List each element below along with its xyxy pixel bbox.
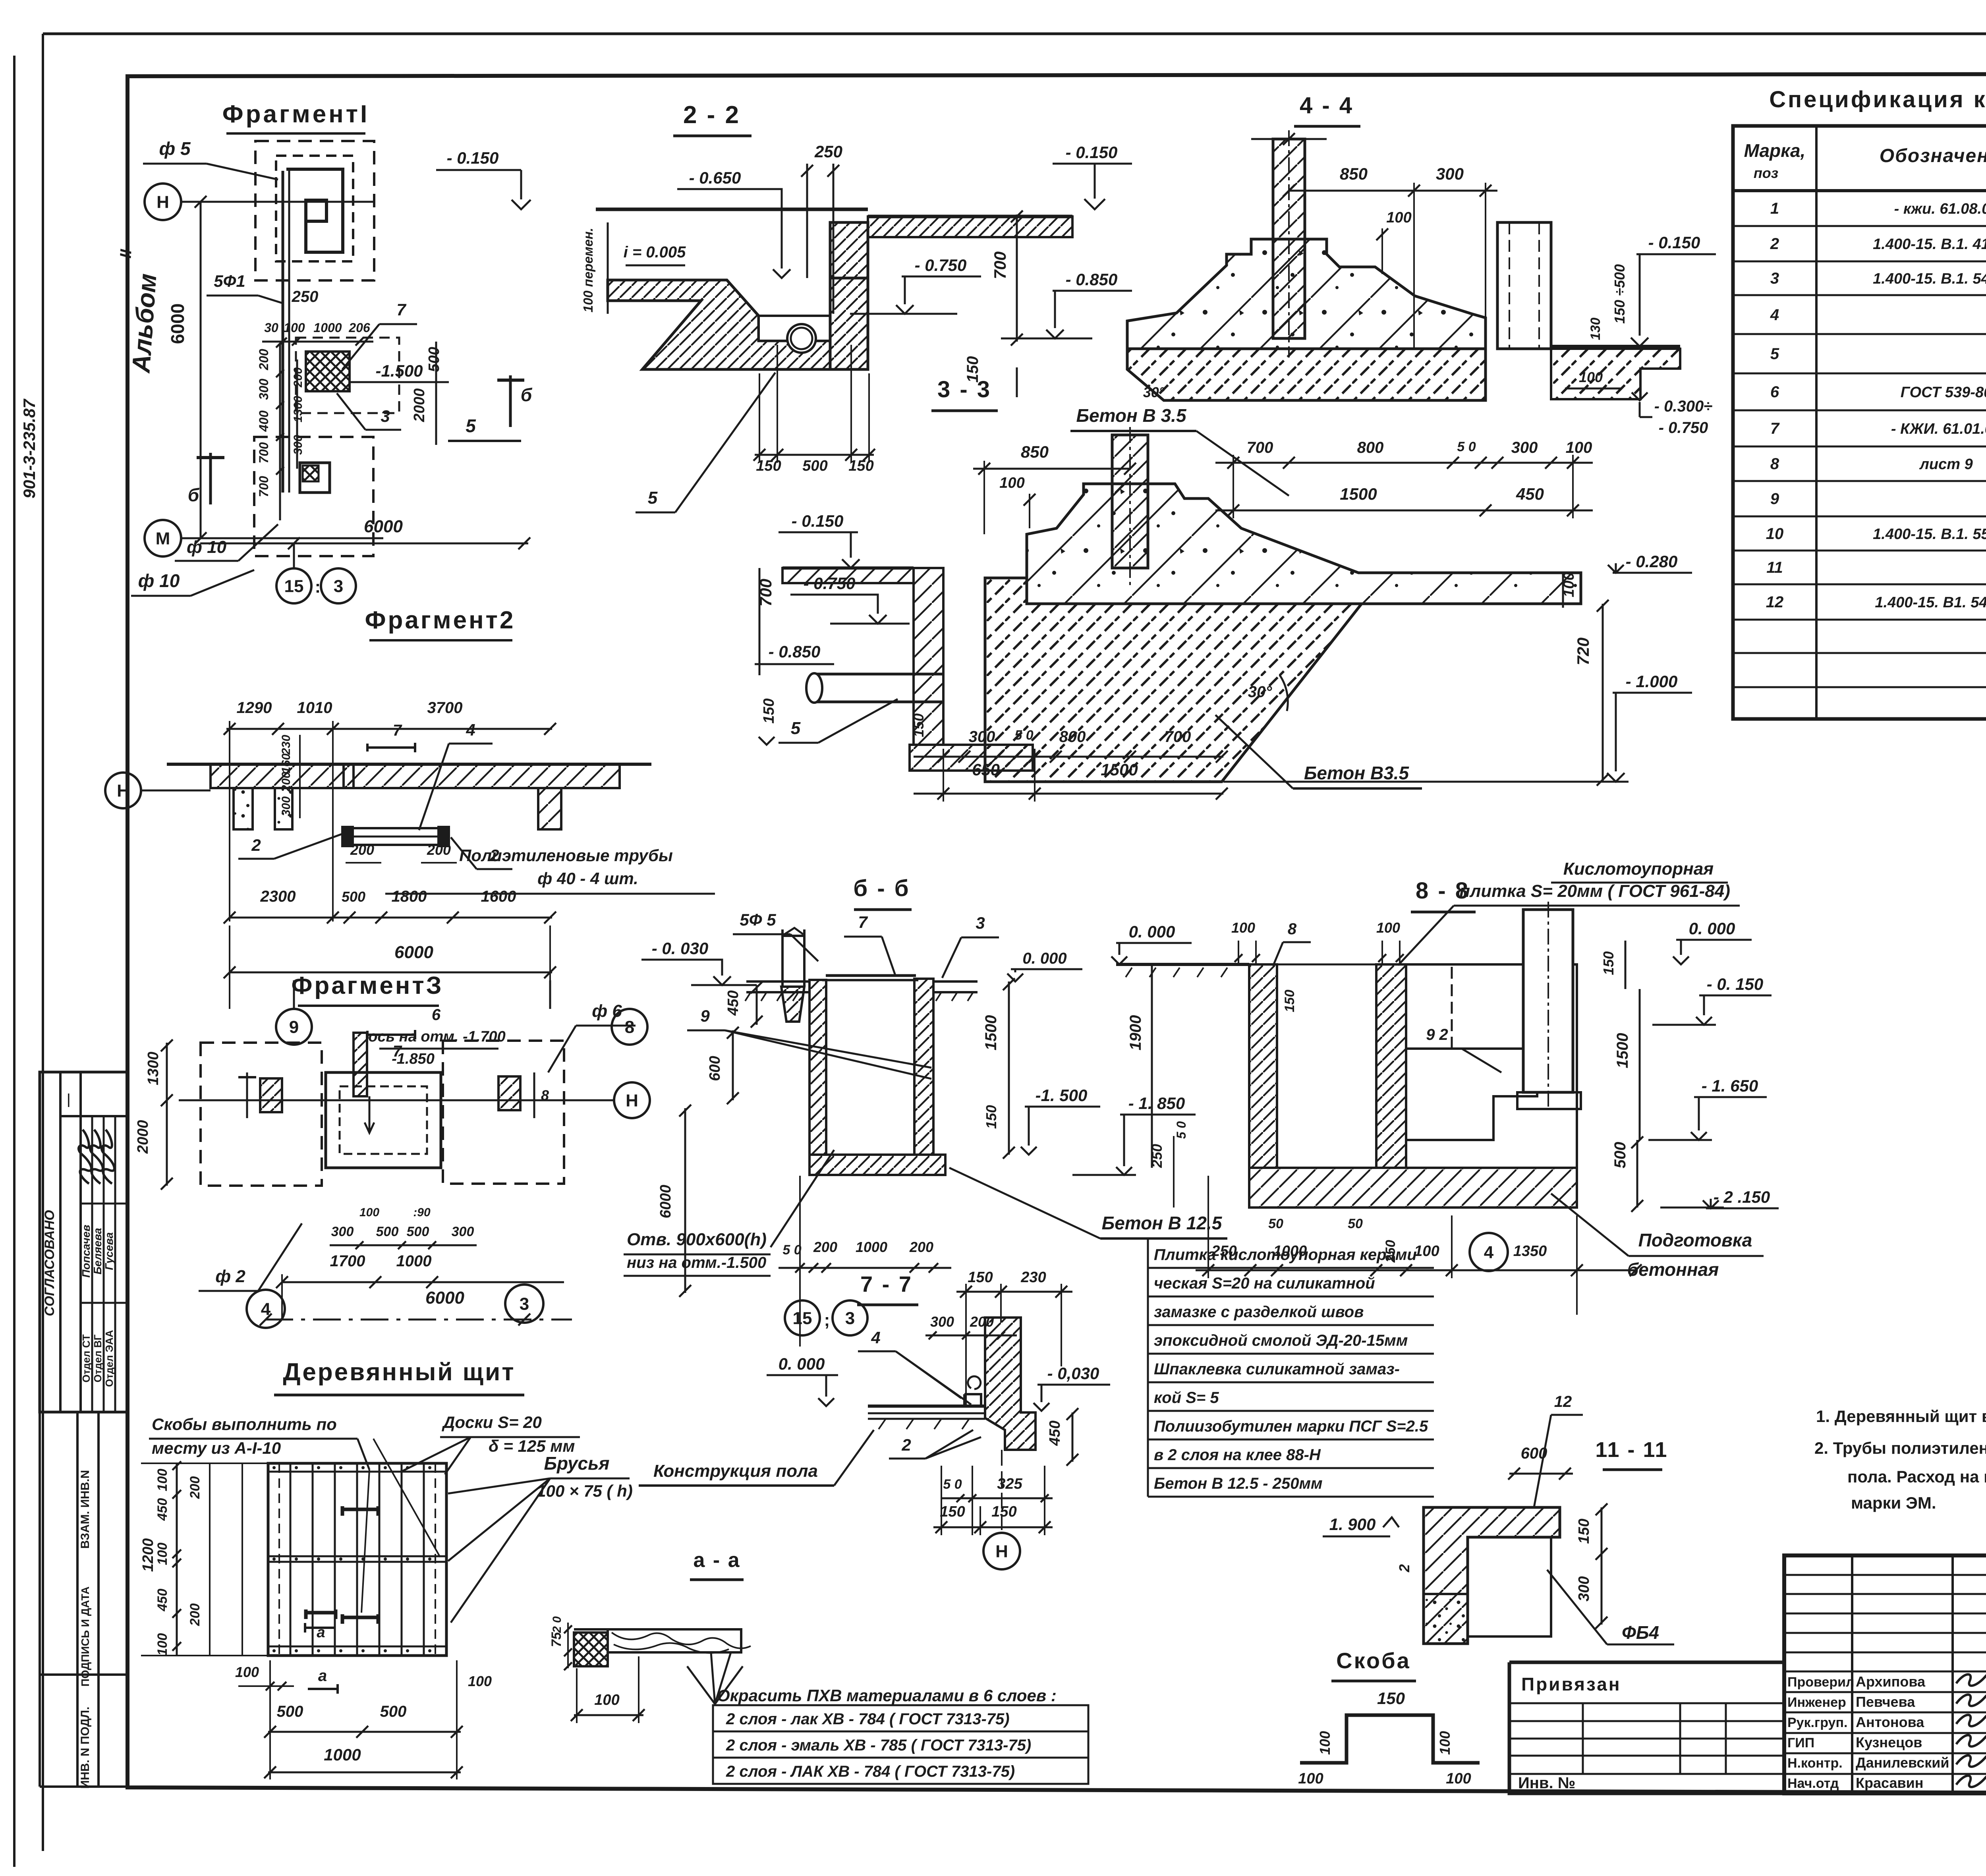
svg-text:300: 300: [257, 379, 271, 400]
section 4-4 right slab: [1551, 349, 1680, 399]
Fragment 2 right slab: [344, 764, 620, 788]
section 8-8 axis circle 4: [1470, 1233, 1508, 1271]
Fragment 1 axis circle N: [145, 184, 181, 220]
section 2-2 trench body: [608, 278, 868, 369]
section 3-3 pit bottom slab: [910, 745, 1033, 771]
svg-text:Марка,: Марка,: [1744, 140, 1806, 161]
svg-text:6000: 6000: [657, 1185, 674, 1219]
svg-text:100: 100: [235, 1664, 259, 1680]
section 7-7 floor: [868, 1405, 985, 1408]
svg-text:II: II: [117, 249, 135, 259]
svg-text:5 0: 5 0: [1457, 439, 1476, 454]
svg-text:5 0: 5 0: [1014, 728, 1033, 743]
Fragment 1 section mark B right: [509, 375, 512, 427]
svg-text:100: 100: [1437, 1731, 1453, 1755]
svg-text:800: 800: [1357, 439, 1384, 456]
section 4-4 dim 850/300: [1289, 190, 1497, 192]
scan spine shadow line: [13, 56, 15, 1867]
svg-text:300: 300: [1436, 164, 1464, 183]
svg-text:- 0. 030: - 0. 030: [652, 939, 708, 958]
section 4-4 bottom dims 700 800 50 300 100: [1215, 462, 1593, 464]
svg-text:160: 160: [280, 753, 293, 773]
svg-text:Подготовка: Подготовка: [1638, 1230, 1752, 1250]
svg-text:Данилевский: Данилевский: [1856, 1754, 1949, 1771]
Fragment 3 right dashed box: [443, 1041, 564, 1184]
svg-text:лист 9: лист 9: [1919, 456, 1972, 473]
svg-text:5: 5: [791, 719, 801, 738]
svg-text:Плитка кислотоупорная керами: Плитка кислотоупорная керами: [1154, 1246, 1417, 1264]
svg-text:Отдел ЭАА: Отдел ЭАА: [103, 1330, 115, 1387]
svg-text:1350: 1350: [1513, 1243, 1547, 1260]
svg-text::90: :90: [413, 1206, 431, 1219]
svg-text:8: 8: [1288, 920, 1297, 938]
svg-text:- 1. 650: - 1. 650: [1702, 1076, 1758, 1095]
svg-text:11 - 11: 11 - 11: [1595, 1438, 1668, 1462]
svg-text:- 0.150: - 0.150: [1066, 143, 1118, 162]
Fragment 2 right pad: [538, 788, 561, 829]
svg-text:1600: 1600: [481, 888, 516, 905]
Fragment 2 pipes bundle: [344, 828, 449, 845]
svg-text:2. Трубы полиэтиленовые з: 2. Трубы полиэтиленовые заложить до устр…: [1814, 1439, 1986, 1457]
svg-text:5: 5: [466, 415, 476, 436]
svg-text:ГОСТ 539-80: ГОСТ 539-80: [1901, 384, 1986, 401]
svg-text:СОГЛАСОВАНО: СОГЛАСОВАНО: [42, 1210, 57, 1316]
svg-text:300: 300: [1511, 439, 1538, 456]
section A-A plank: [608, 1629, 741, 1652]
svg-text:эпоксидной смолой ЭД-20-15мм: эпоксидной смолой ЭД-20-15мм: [1154, 1332, 1408, 1349]
Fragment 1 vertical axis dim 6000: [200, 202, 202, 538]
section 8-8 left wall: [1249, 964, 1277, 1168]
svg-text:5Ф1: 5Ф1: [214, 272, 245, 290]
svg-text:7: 7: [396, 300, 406, 319]
svg-text:500: 500: [407, 1224, 429, 1239]
Fragment 3 riser: [354, 1033, 367, 1096]
Fragment 1 outer dashed box: [255, 141, 374, 280]
svg-text:Бетон В 12.5 - 250мм: Бетон В 12.5 - 250мм: [1154, 1475, 1323, 1492]
section 8-8 right wall: [1376, 964, 1406, 1168]
section A-A leaders to paint note: [715, 1666, 743, 1704]
svg-text:800: 800: [1059, 728, 1086, 746]
svg-text:5: 5: [648, 488, 658, 508]
svg-text:1: 1: [1770, 200, 1779, 217]
svg-text:150: 150: [848, 458, 873, 474]
svg-text:1000: 1000: [856, 1239, 887, 1255]
svg-text:8: 8: [541, 1087, 549, 1103]
svg-text:Кузнецов: Кузнецов: [1856, 1734, 1922, 1750]
svg-text:- 0.150: - 0.150: [792, 512, 844, 530]
svg-text:100: 100: [155, 1469, 170, 1492]
wooden shield mid rail: [268, 1555, 446, 1557]
svg-text:Привязан: Привязан: [1521, 1674, 1621, 1694]
svg-text:500: 500: [376, 1224, 399, 1239]
svg-text:1. 900: 1. 900: [1329, 1515, 1376, 1534]
svg-text:130: 130: [1588, 318, 1603, 340]
svg-text:100: 100: [1566, 439, 1592, 456]
svg-text:30°: 30°: [1248, 683, 1272, 701]
svg-text:2300: 2300: [260, 888, 296, 905]
section 2-2 trench channel: [759, 316, 830, 341]
svg-text:1800: 1800: [392, 888, 427, 905]
svg-text:150: 150: [968, 1269, 993, 1286]
svg-text:150: 150: [1282, 990, 1297, 1012]
svg-text:500: 500: [342, 889, 365, 905]
section 2-2 floor line left: [596, 208, 868, 211]
svg-text:4: 4: [261, 1299, 271, 1319]
svg-text:1500: 1500: [1614, 1033, 1631, 1068]
svg-text:300: 300: [452, 1224, 474, 1239]
svg-text:ф 5: ф 5: [159, 138, 191, 159]
svg-text:Отдел СТ: Отдел СТ: [80, 1334, 92, 1382]
svg-text:0. 000: 0. 000: [1022, 950, 1066, 967]
svg-text:200: 200: [257, 349, 271, 371]
svg-text:6000: 6000: [364, 517, 403, 536]
svg-text:200: 200: [427, 842, 451, 858]
svg-text:100: 100: [359, 1206, 379, 1219]
svg-text:300: 300: [930, 1314, 954, 1330]
Fragment 1 wall column: [286, 169, 343, 252]
svg-text:поз: поз: [1754, 165, 1778, 181]
svg-text:1900: 1900: [1127, 1015, 1144, 1051]
section 4-4 right pit walls: [1497, 222, 1551, 349]
svg-text:850: 850: [1340, 164, 1368, 183]
svg-text:206: 206: [348, 321, 370, 335]
svg-text:200: 200: [292, 367, 305, 388]
svg-text:150: 150: [991, 1503, 1016, 1520]
svg-text:500: 500: [380, 1703, 407, 1720]
svg-text:100: 100: [155, 1543, 170, 1565]
svg-text:150: 150: [910, 713, 927, 737]
svg-text:Гусева: Гусева: [103, 1232, 115, 1270]
svg-text:100: 100: [468, 1673, 492, 1689]
svg-text:450: 450: [1047, 1420, 1063, 1446]
svg-text:Беляева: Беляева: [91, 1228, 104, 1274]
svg-text:3700: 3700: [427, 699, 463, 717]
svg-text:ФрагментЗ: ФрагментЗ: [291, 972, 443, 999]
section 11-11 detail: [1424, 1507, 1560, 1644]
svg-text:-1. 500: -1. 500: [1036, 1086, 1088, 1105]
svg-text:1300: 1300: [292, 396, 305, 422]
svg-text:ческая S=20 на силикатной: ческая S=20 на силикатной: [1154, 1275, 1375, 1292]
svg-text:2: 2: [1396, 1564, 1412, 1573]
svg-text:500: 500: [802, 458, 827, 474]
svg-text:3: 3: [334, 576, 343, 596]
Fragment 3 axis circles 4 and 3: [247, 1290, 285, 1328]
svg-text:- 1.000: - 1.000: [1626, 672, 1678, 691]
svg-text:6000: 6000: [394, 943, 433, 962]
svg-text:Окрасить ПХВ материалами в: Окрасить ПХВ материалами в 6 слоев :: [717, 1686, 1057, 1705]
section B-B cover plate: [826, 974, 916, 977]
svg-text:720: 720: [1574, 638, 1592, 665]
svg-text:-1.500: -1.500: [375, 361, 423, 380]
svg-text:б - б: б - б: [853, 875, 910, 901]
svg-text:0. 000: 0. 000: [779, 1354, 825, 1373]
svg-text:Нач.отд: Нач.отд: [1787, 1776, 1839, 1791]
svg-text:3: 3: [845, 1308, 855, 1328]
svg-text:—: —: [60, 1094, 75, 1107]
Fragment 2 section mark 7 top: [366, 744, 369, 752]
svg-text:-1.850: -1.850: [392, 1051, 435, 1067]
svg-text:4: 4: [466, 721, 475, 739]
svg-text:100: 100: [1446, 1770, 1471, 1787]
svg-text:700: 700: [257, 476, 271, 497]
Fragment 3 left hatched pier: [260, 1078, 282, 1112]
svg-text:Певчева: Певчева: [1856, 1694, 1915, 1710]
svg-text:ФБ4: ФБ4: [1622, 1622, 1659, 1643]
svg-text:150: 150: [761, 698, 777, 723]
svg-text:1010: 1010: [297, 699, 332, 717]
Fragment 3 central pit: [326, 1072, 441, 1168]
Fragment 1 inner dashed box: [276, 156, 353, 261]
spec table grid: [1733, 126, 1986, 719]
svg-text:700: 700: [991, 251, 1009, 279]
svg-text:6: 6: [432, 1006, 441, 1024]
svg-text:- КЖИ. 61.01.00: - КЖИ. 61.01.00: [1891, 421, 1986, 437]
svg-text:кой S= 5: кой S= 5: [1154, 1389, 1219, 1407]
svg-text:9: 9: [700, 1007, 710, 1025]
svg-text:30°: 30°: [1143, 384, 1165, 400]
svg-text:500: 500: [277, 1703, 303, 1720]
svg-text:4: 4: [1484, 1242, 1494, 1262]
skoba profile: [1300, 1715, 1480, 1763]
svg-text:2: 2: [1770, 235, 1779, 253]
svg-text:500: 500: [1611, 1142, 1629, 1169]
svg-text:4: 4: [871, 1328, 880, 1347]
svg-text:- 2 .150: - 2 .150: [1714, 1188, 1770, 1206]
section B-B pit bottom slab: [809, 1155, 945, 1175]
svg-text:- кжи. 61.08.00: - кжи. 61.08.00: [1894, 201, 1986, 217]
svg-text:11: 11: [1766, 559, 1783, 576]
svg-text:3: 3: [520, 1294, 529, 1314]
svg-text:Скоба: Скоба: [1336, 1648, 1411, 1673]
section 8-8 ground line: [1116, 963, 1249, 966]
svg-text:450: 450: [155, 1589, 170, 1612]
svg-text:Антонова: Антонова: [1856, 1714, 1924, 1730]
svg-text:Н: Н: [626, 1091, 638, 1110]
section 2-2 pipe: [787, 324, 816, 353]
svg-text:150: 150: [1377, 1689, 1405, 1708]
svg-text:6000: 6000: [167, 303, 188, 344]
svg-text:600: 600: [707, 1056, 723, 1081]
svg-text:700: 700: [1165, 728, 1191, 746]
svg-text:Бетон В3.5: Бетон В3.5: [1304, 763, 1410, 783]
svg-text:Конструкция пола: Конструкция пола: [653, 1461, 818, 1481]
svg-text:100 × 75 ( h): 100 × 75 ( h): [537, 1482, 633, 1500]
svg-text:1500: 1500: [982, 1015, 1000, 1051]
svg-text:Н: Н: [995, 1542, 1008, 1561]
svg-text:1000: 1000: [396, 1252, 432, 1270]
svg-text:ось на отм. -1.700: ось на отм. -1.700: [368, 1028, 506, 1045]
svg-text:1.400-15. В1. 540-09: 1.400-15. В1. 540-09: [1875, 594, 1986, 611]
svg-text:150: 150: [1576, 1519, 1592, 1544]
svg-text:200: 200: [813, 1239, 837, 1255]
sheet outer border: [43, 33, 1986, 35]
svg-text:9 2: 9 2: [1426, 1026, 1448, 1043]
svg-text:50: 50: [1268, 1216, 1283, 1231]
svg-text:ВЗАМ. ИНВ.N: ВЗАМ. ИНВ.N: [79, 1470, 92, 1549]
section 8-8 bottom slab: [1249, 1168, 1577, 1208]
svg-text:- 0.650: - 0.650: [689, 168, 741, 187]
svg-text:200: 200: [280, 772, 293, 792]
svg-text:Скобы выполнить по: Скобы выполнить по: [152, 1415, 337, 1434]
Fragment 2 section mark 7 bottom: [366, 1031, 369, 1039]
svg-text:плитка S= 20мм ( ГОСТ 961-84): плитка S= 20мм ( ГОСТ 961-84): [1459, 881, 1730, 901]
svg-text:5 0: 5 0: [943, 1477, 962, 1492]
svg-text:1000: 1000: [313, 321, 342, 335]
svg-text:100: 100: [1298, 1770, 1323, 1787]
svg-text:Н.контр.: Н.контр.: [1787, 1756, 1843, 1771]
Fragment 1 section mark B top: [209, 453, 212, 504]
svg-text:100: 100: [1386, 209, 1411, 226]
svg-text:Деревянный щит: Деревянный щит: [283, 1358, 515, 1386]
svg-text:150: 150: [940, 1503, 965, 1520]
svg-text:250: 250: [292, 288, 319, 305]
svg-text:200: 200: [187, 1604, 203, 1627]
svg-text:700: 700: [1247, 439, 1273, 456]
svg-text:100: 100: [999, 475, 1024, 491]
section 4-4 foundation mound: [1127, 239, 1486, 349]
section B-B pit walls: [809, 980, 826, 1155]
svg-text:замазке с разделкой швов: замазке с разделкой швов: [1154, 1303, 1364, 1321]
svg-text:2 слоя - лак ХВ - 784 ( ГО: 2 слоя - лак ХВ - 784 ( ГОСТ 7313-75): [726, 1710, 1010, 1728]
svg-text:9: 9: [1770, 490, 1779, 508]
Fragment 1 lower dashed box: [254, 437, 373, 556]
svg-text:Рук.груп.: Рук.груп.: [1787, 1715, 1847, 1730]
svg-text:7 - 7: 7 - 7: [860, 1271, 913, 1296]
svg-text:Брусья: Брусья: [544, 1453, 609, 1474]
section 4-4 column: [1273, 139, 1305, 338]
Fragment 2 axis circles 9 and 8: [276, 1009, 312, 1045]
section 2-2 right wall: [830, 222, 868, 369]
svg-text:100: 100: [155, 1633, 170, 1656]
section B-B right approach slab: [933, 981, 978, 992]
svg-text:ИНВ. N ПОДЛ.: ИНВ. N ПОДЛ.: [79, 1707, 92, 1789]
title block: [1784, 1555, 1986, 1793]
svg-text:5 0: 5 0: [1174, 1121, 1188, 1139]
svg-text:300: 300: [280, 796, 293, 816]
svg-text:30: 30: [264, 321, 278, 335]
section B-B pier above: [782, 929, 804, 987]
svg-text:901-3-235.87: 901-3-235.87: [20, 398, 39, 498]
svg-text:1.400-15. В.1. 540-09: 1.400-15. В.1. 540-09: [1873, 270, 1986, 287]
section 3-3 dim 850: [973, 468, 1130, 470]
svg-text:3 - 3: 3 - 3: [937, 377, 991, 402]
svg-text:12: 12: [1766, 593, 1784, 611]
svg-text:100: 100: [1414, 1243, 1439, 1260]
svg-text:в 2 слоя на клее 88-Н: в 2 слоя на клее 88-Н: [1154, 1446, 1321, 1464]
svg-text:а - а: а - а: [693, 1549, 740, 1572]
svg-text:- 0.750: - 0.750: [915, 256, 967, 274]
svg-text:б: б: [188, 485, 200, 505]
section B-B pier wedge: [781, 987, 804, 1022]
svg-text:1000: 1000: [324, 1745, 361, 1764]
svg-text:2 слоя - ЛАК ХВ - 784 (: 2 слоя - ЛАК ХВ - 784 ( ГОСТ 7313-75): [726, 1763, 1015, 1780]
svg-text:8: 8: [625, 1017, 634, 1037]
svg-text:δ = 125 мм: δ = 125 мм: [489, 1437, 575, 1455]
title block left wing: [1509, 1662, 1784, 1793]
svg-text:б: б: [521, 384, 533, 405]
svg-text:150: 150: [983, 1105, 999, 1129]
svg-text:Архипова: Архипова: [1856, 1673, 1926, 1690]
svg-text:5Ф 5: 5Ф 5: [740, 910, 776, 929]
svg-text:100: 100: [284, 321, 305, 335]
svg-text:Попсачев: Попсачев: [80, 1225, 92, 1277]
Fragment 2 axis circles 15;3: [276, 568, 311, 603]
svg-text:Полиэтиленовые трубы: Полиэтиленовые трубы: [459, 846, 673, 865]
svg-text:Н: Н: [156, 192, 169, 212]
svg-text:100: 100: [1579, 369, 1603, 385]
svg-text:230: 230: [1020, 1269, 1046, 1286]
svg-text:0. 000: 0. 000: [1129, 922, 1175, 941]
svg-text:Бетон В 3.5: Бетон В 3.5: [1076, 405, 1186, 426]
section B-B pit inner liner: [826, 980, 914, 1155]
Fragment 3 left dashed box: [201, 1043, 322, 1186]
svg-text:Спецификация к схеме располо: Спецификация к схеме расположения приямк…: [1769, 87, 1986, 112]
svg-text:4: 4: [1770, 306, 1779, 324]
Fragment 3 right hatched pier: [498, 1076, 520, 1110]
section 3-3 upper mound: [1027, 484, 1581, 604]
svg-text:- 0.150: - 0.150: [447, 149, 499, 167]
svg-text:- 0.850: - 0.850: [1066, 270, 1118, 289]
svg-text:700: 700: [257, 442, 271, 464]
svg-text:1.400-15. В.1. 550-06: 1.400-15. В.1. 550-06: [1873, 526, 1986, 543]
svg-text:1700: 1700: [330, 1252, 365, 1270]
svg-text:ф 6: ф 6: [592, 1001, 622, 1021]
svg-text:1.400-15. В.1. 410-05: 1.400-15. В.1. 410-05: [1873, 236, 1986, 253]
section 4-4 base slab: [1127, 349, 1486, 400]
svg-text:- 0.750: - 0.750: [1659, 419, 1708, 437]
svg-text:Отв. 900х600(h): Отв. 900х600(h): [627, 1230, 767, 1249]
svg-text:- 0. 150: - 0. 150: [1707, 975, 1763, 993]
svg-text:100: 100: [1317, 1731, 1333, 1755]
svg-text:марки ЭМ.: марки ЭМ.: [1851, 1493, 1936, 1512]
section 4-4 bottom dims 1500 450: [1215, 510, 1593, 512]
svg-text:пола. Расход на полиэтилен: пола. Расход на полиэтиленовые трубы см.…: [1847, 1467, 1986, 1486]
svg-text:250: 250: [814, 142, 842, 161]
svg-text:Кислотоупорная: Кислотоупорная: [1563, 859, 1714, 879]
svg-text:1. Деревянный щит выполняет: 1. Деревянный щит выполняется из хвойных…: [1816, 1407, 1986, 1426]
svg-text:Фрагмент2: Фрагмент2: [365, 607, 516, 634]
Fragment 2 left slab: [211, 764, 354, 788]
svg-text:1500: 1500: [1101, 760, 1138, 779]
wooden shield staples: [342, 1506, 378, 1516]
svg-text:400: 400: [257, 410, 271, 432]
svg-text:бетонная: бетонная: [1627, 1259, 1719, 1280]
Fragment 3 axis line N: [179, 1099, 614, 1101]
svg-text:Полиизобутилен марки ПСГ S=: Полиизобутилен марки ПСГ S=2.5: [1154, 1418, 1428, 1435]
svg-text:Инженер: Инженер: [1787, 1695, 1846, 1710]
svg-text:150: 150: [1600, 951, 1617, 975]
svg-text:300: 300: [969, 728, 995, 746]
section B-B left approach slab: [746, 981, 809, 992]
svg-text:2 0: 2 0: [551, 1616, 564, 1633]
svg-text:75: 75: [549, 1632, 564, 1647]
svg-text:6000: 6000: [425, 1288, 464, 1308]
svg-text:300: 300: [1576, 1576, 1592, 1601]
svg-text:а: а: [318, 1667, 327, 1685]
svg-text:- 0,030: - 0,030: [1047, 1364, 1099, 1383]
section 2-2 right slab: [868, 216, 1072, 237]
section 8-8 right steps: [1406, 964, 1577, 1168]
svg-text:3: 3: [976, 914, 985, 932]
section 3-3 left floor slab: [782, 568, 914, 583]
svg-text:- 0.850: - 0.850: [769, 642, 821, 661]
svg-text:100: 100: [1376, 920, 1400, 936]
svg-text:2 - 2: 2 - 2: [683, 101, 740, 129]
svg-text:8: 8: [1770, 455, 1779, 473]
Fragment 2 axis circle N: [105, 773, 141, 808]
svg-text:Красавин: Красавин: [1856, 1775, 1923, 1791]
section 7-7 angle piece: [964, 1394, 981, 1406]
